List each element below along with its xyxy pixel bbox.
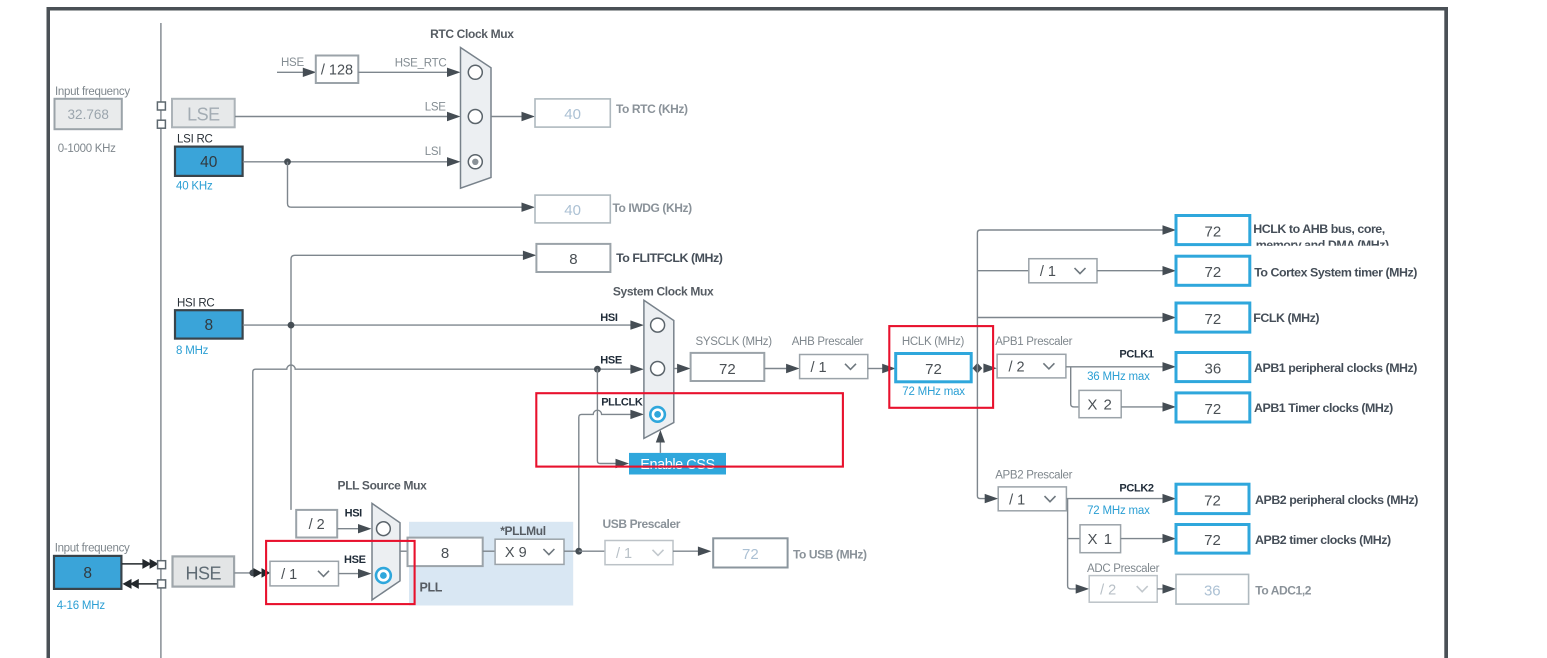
svg-text:X 1: X 1 (1088, 531, 1114, 548)
svg-text:72: 72 (719, 361, 736, 378)
svg-text:4-16 MHz: 4-16 MHz (57, 600, 106, 612)
svg-text:X 9: X 9 (505, 545, 527, 561)
svg-text:0-1000 KHz: 0-1000 KHz (58, 143, 116, 155)
svg-text:APB1 peripheral clocks (MHz): APB1 peripheral clocks (MHz) (1254, 361, 1417, 375)
svg-text:/ 1: / 1 (1040, 264, 1056, 280)
svg-text:72: 72 (1204, 492, 1221, 509)
svg-text:/ 1: / 1 (616, 546, 632, 562)
svg-text:8: 8 (569, 251, 577, 268)
svg-text:HCLK to AHB bus, core,: HCLK to AHB bus, core, (1253, 222, 1384, 236)
svg-text:APB1 Prescaler: APB1 Prescaler (995, 336, 1072, 348)
svg-text:36 MHz max: 36 MHz max (1087, 371, 1150, 383)
svg-text:APB1 Timer clocks (MHz): APB1 Timer clocks (MHz) (1254, 401, 1393, 415)
svg-text:8: 8 (441, 545, 449, 562)
svg-text:40 KHz: 40 KHz (176, 181, 213, 193)
svg-text:HSI: HSI (345, 508, 363, 520)
svg-text:HSE: HSE (186, 564, 222, 584)
svg-text:8: 8 (83, 565, 92, 582)
svg-text:PCLK1: PCLK1 (1119, 349, 1154, 361)
svg-text:System Clock Mux: System Clock Mux (613, 284, 714, 298)
svg-text:HSI: HSI (600, 312, 618, 324)
svg-text:To Cortex System timer (MHz): To Cortex System timer (MHz) (1254, 265, 1417, 279)
svg-text:Input frequency: Input frequency (55, 543, 130, 555)
svg-text:To USB (MHz): To USB (MHz) (793, 548, 867, 562)
svg-text:HSI RC: HSI RC (177, 297, 214, 309)
svg-text:36: 36 (1204, 583, 1221, 600)
svg-text:HSE: HSE (344, 554, 366, 566)
svg-text:APB2 timer clocks (MHz): APB2 timer clocks (MHz) (1255, 533, 1391, 547)
svg-text:HSE: HSE (600, 354, 622, 366)
svg-text:72: 72 (1205, 311, 1222, 328)
svg-text:72: 72 (1204, 532, 1221, 549)
svg-text:36: 36 (1205, 361, 1222, 378)
svg-text:72: 72 (1205, 401, 1222, 418)
svg-text:memory and DMA (MHz): memory and DMA (MHz) (1256, 238, 1389, 252)
svg-text:72 MHz max: 72 MHz max (1087, 505, 1150, 517)
svg-text:USB Prescaler: USB Prescaler (603, 517, 681, 531)
svg-text:AHB Prescaler: AHB Prescaler (792, 336, 864, 348)
svg-text:To FLITFCLK (MHz): To FLITFCLK (MHz) (616, 251, 723, 265)
svg-text:APB2 Prescaler: APB2 Prescaler (995, 470, 1072, 482)
svg-text:LSI: LSI (425, 146, 442, 158)
svg-text:To ADC1,2: To ADC1,2 (1255, 583, 1311, 597)
svg-text:8: 8 (204, 317, 213, 334)
svg-text:LSE: LSE (187, 104, 220, 124)
svg-text:To RTC (KHz): To RTC (KHz) (616, 102, 688, 116)
svg-text:X 2: X 2 (1087, 397, 1113, 414)
svg-text:/ 1: / 1 (281, 567, 297, 583)
svg-text:/ 2: / 2 (1100, 582, 1116, 598)
svg-text:40: 40 (564, 106, 581, 123)
svg-text:FCLK (MHz): FCLK (MHz) (1253, 311, 1319, 325)
svg-text:/ 128: / 128 (321, 63, 353, 79)
svg-text:8 MHz: 8 MHz (176, 345, 209, 357)
svg-text:Input frequency: Input frequency (55, 86, 130, 98)
svg-text:PCLK2: PCLK2 (1119, 482, 1154, 494)
svg-text:72: 72 (1205, 224, 1222, 241)
svg-text:*PLLMul: *PLLMul (500, 524, 546, 538)
svg-text:72: 72 (1205, 264, 1222, 281)
svg-text:ADC Prescaler: ADC Prescaler (1087, 563, 1160, 575)
svg-text:72: 72 (925, 361, 942, 378)
svg-text:40: 40 (564, 202, 581, 219)
svg-text:LSE: LSE (425, 101, 447, 113)
svg-text:PLL Source Mux: PLL Source Mux (338, 479, 428, 493)
svg-text:32.768: 32.768 (68, 107, 109, 122)
svg-text:HSE: HSE (281, 57, 304, 69)
svg-text:HCLK (MHz): HCLK (MHz) (902, 336, 965, 348)
svg-text:/ 1: / 1 (1009, 492, 1025, 508)
svg-text:RTC Clock Mux: RTC Clock Mux (430, 27, 514, 41)
svg-text:PLLCLK: PLLCLK (601, 396, 643, 408)
svg-text:40: 40 (200, 154, 218, 171)
svg-text:To IWDG (KHz): To IWDG (KHz) (613, 201, 693, 215)
svg-text:SYSCLK (MHz): SYSCLK (MHz) (696, 336, 773, 348)
svg-text:/ 2: / 2 (309, 517, 325, 533)
svg-text:PLL: PLL (420, 580, 443, 594)
svg-text:/ 2: / 2 (1008, 360, 1024, 376)
svg-text:Enable CSS: Enable CSS (640, 457, 715, 473)
svg-text:LSI RC: LSI RC (177, 133, 213, 145)
svg-text:HSE_RTC: HSE_RTC (395, 57, 447, 69)
svg-text:APB2 peripheral clocks (MHz): APB2 peripheral clocks (MHz) (1255, 493, 1418, 507)
svg-text:/ 1: / 1 (810, 360, 826, 376)
svg-text:72: 72 (742, 546, 759, 563)
svg-text:72 MHz max: 72 MHz max (902, 386, 965, 398)
